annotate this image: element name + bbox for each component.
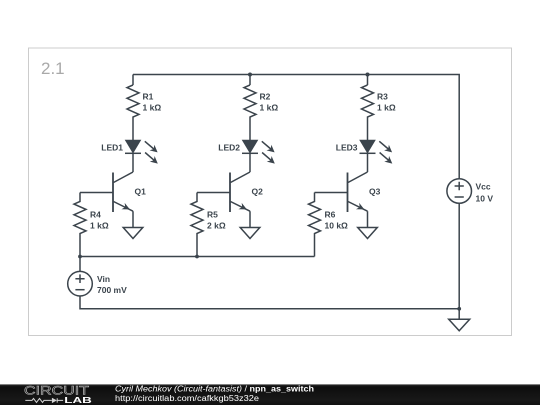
svg-text:LED3: LED3	[336, 143, 358, 153]
svg-text:10 kΩ: 10 kΩ	[325, 221, 349, 231]
svg-text:2.1: 2.1	[41, 59, 65, 78]
svg-text:Q3: Q3	[369, 186, 381, 196]
svg-text:LED1: LED1	[101, 143, 123, 153]
svg-text:10 V: 10 V	[476, 194, 494, 204]
svg-text:R5: R5	[207, 210, 218, 220]
svg-text:LED2: LED2	[218, 143, 240, 153]
svg-text:Q1: Q1	[135, 186, 147, 196]
svg-text:R4: R4	[90, 210, 101, 220]
svg-text:http://circuitlab.com/cafkkgb5: http://circuitlab.com/cafkkgb53z32e	[115, 394, 260, 403]
svg-text:LAB: LAB	[64, 395, 92, 405]
svg-text:R6: R6	[325, 210, 336, 220]
svg-text:Cyril Mechkov (Circuit-fantasi: Cyril Mechkov (Circuit-fantasist) / npn_…	[115, 385, 314, 394]
svg-text:Vcc: Vcc	[476, 182, 491, 192]
svg-text:R1: R1	[143, 92, 154, 102]
svg-text:R3: R3	[377, 92, 388, 102]
svg-text:R2: R2	[260, 92, 271, 102]
svg-text:1 kΩ: 1 kΩ	[143, 103, 162, 113]
svg-text:Vin: Vin	[97, 274, 110, 284]
svg-text:2 kΩ: 2 kΩ	[207, 221, 226, 231]
svg-text:1 kΩ: 1 kΩ	[90, 221, 109, 231]
svg-text:Q2: Q2	[252, 186, 264, 196]
svg-text:1 kΩ: 1 kΩ	[377, 103, 396, 113]
svg-text:1 kΩ: 1 kΩ	[260, 103, 279, 113]
svg-text:700 mV: 700 mV	[97, 285, 127, 295]
